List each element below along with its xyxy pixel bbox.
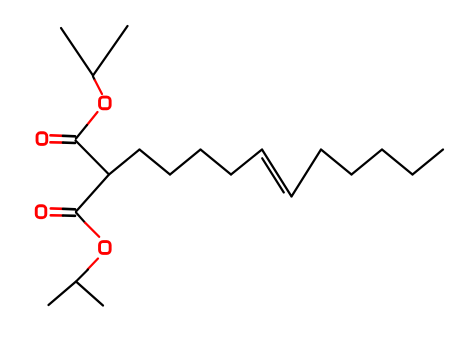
chain double bond C8=C9 inner line [262, 158, 284, 192]
chain bond C13-C14 [413, 150, 444, 175]
bond O1-C1 black half [76, 125, 87, 139]
bond C3-O4 red half [85, 223, 99, 237]
chain bond C9-C10 [292, 150, 322, 197]
double bond C1=O2 upper line black part [63, 135, 75, 138]
bond C3-O4 black half [76, 213, 85, 223]
chain bond C11-C12 [352, 150, 383, 175]
double bond C3=O3 lower line red part [51, 214, 63, 217]
chain bond C7-C8 [231, 150, 262, 175]
double bond C3=O3 upper line red part [51, 207, 63, 210]
bond O4-CH black half [76, 270, 88, 282]
double bond C3=O3 lower line black part [63, 214, 75, 217]
atom O3 (bottom carbonyl oxygen) [36, 206, 46, 218]
bond CH-O1 red half [95, 80, 102, 94]
chain double bond C8=C9 main line [262, 150, 292, 197]
atom O2 (top carbonyl oxygen) [37, 133, 47, 145]
double bond C1=O2 upper line red part [51, 134, 64, 137]
double bond C3=O3 upper line black part [63, 208, 75, 211]
bond CH3c-CH (bottom isopropyl arm left) [49, 282, 77, 306]
double bond C1=O2 lower line black part [63, 141, 75, 144]
bond O4-CH red half [88, 259, 99, 270]
chain bond C10-C11 [321, 150, 352, 175]
atom O4 (bottom ester oxygen) [100, 242, 111, 254]
chain bond C5-C6 [170, 150, 201, 175]
double bond C1=O2 lower line red part [51, 141, 64, 144]
chain bond C4-C5 [140, 150, 171, 175]
bond C1-C2 (carbonyl to central CH) [76, 141, 110, 175]
bond C2-C3 (central CH to bottom carbonyl) [76, 175, 109, 212]
bond CH3a-CH (top isopropyl arm left) [61, 28, 93, 76]
bond CH-O1 black half [93, 77, 95, 81]
bond CH3d-CH (bottom isopropyl arm right) [76, 282, 103, 306]
bond O1-C1 red half [87, 112, 98, 125]
atom O1 (top ester oxygen) [100, 97, 111, 109]
chain bond C2-C4 [109, 150, 140, 175]
chain bond C12-C13 [382, 150, 413, 175]
bond CH3b-CH (top isopropyl arm right) [93, 26, 128, 76]
chain bond C6-C7 [201, 150, 232, 175]
